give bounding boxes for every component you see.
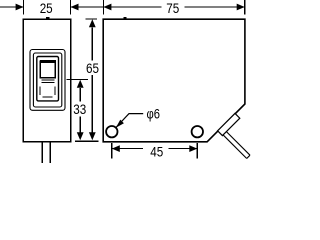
dimension 65: top tick (86, 18, 97, 20)
lens lower window right tick (54, 87, 56, 96)
dimensions 33/65: shared bottom tick (75, 140, 99, 142)
lens middle double line upper (42, 79, 55, 81)
right box (front view body with chamfered corner) (103, 19, 245, 142)
dimension 33: bottom arrowhead (down) (77, 132, 84, 140)
svg-text:φ6: φ6 (147, 107, 161, 122)
cable upper edge (226, 132, 250, 156)
lens bezel middle rounded rect (33, 53, 61, 107)
lens upper window thick top edge (40, 60, 56, 63)
dimension 75: right arrowhead (237, 4, 245, 11)
svg-text:75: 75 (166, 0, 179, 16)
dimension 25: left extension line (23, 0, 25, 15)
left cable right edge (49, 142, 51, 163)
cable end cap (247, 155, 250, 158)
lens bezel inner rounded rect (37, 57, 59, 101)
lens lower window bottom line (43, 96, 53, 98)
lens lower window left tick (39, 87, 41, 96)
phi6 leader arrowhead (116, 120, 124, 128)
dimension 25: right extension line (70, 0, 72, 15)
svg-text:25: 25 (40, 0, 53, 16)
phi6 leader line (116, 114, 143, 128)
dimension 65: lower stem (91, 75, 93, 132)
dimension 75: left extension line (102, 0, 104, 15)
svg-text:65: 65 (86, 60, 99, 76)
dimension 45: left extension line (111, 143, 113, 159)
lens upper window (40, 61, 55, 77)
dimension 33: lower stem (79, 117, 81, 133)
lens bezel outer rounded rect (30, 50, 65, 111)
dimension 65: top arrowhead (up) (89, 19, 96, 27)
dimension 75: right extension line (244, 0, 246, 15)
dimension 25: right arrow line (71, 6, 104, 8)
cable lower edge (223, 135, 247, 159)
svg-text:33: 33 (73, 101, 86, 117)
dimension 45: right extension line (196, 143, 198, 159)
left box (side view body) (23, 19, 70, 142)
dimension 45: left dim line segment (112, 148, 143, 150)
mounting hole right (192, 126, 203, 137)
right box top bump (123, 17, 126, 19)
dimension 75: left dim line segment (103, 6, 161, 8)
left box top bump (46, 17, 49, 19)
left cable left edge (41, 142, 43, 163)
dimension 75: left arrowhead (103, 4, 111, 11)
dimension 65: bottom arrowhead (down) (89, 132, 96, 140)
dimension 33: optical axis tick (66, 78, 88, 80)
dimension 33: top arrowhead (up) (77, 80, 84, 88)
dimension 65: upper stem (91, 27, 93, 60)
dimension 33: upper stem (79, 88, 81, 102)
svg-text:45: 45 (150, 144, 163, 160)
dimension 45: right arrowhead (189, 145, 197, 152)
lens middle double line lower (42, 82, 55, 84)
dimension 25: left arrowhead (16, 4, 24, 11)
dimension 45: left arrowhead (112, 145, 120, 152)
dimension 25: left arrow line (0, 6, 24, 8)
dimension 25: right arrowhead (71, 4, 79, 11)
cable gland collar on chamfer (218, 113, 240, 135)
dimension 45: right dim line segment (169, 148, 198, 150)
dimension 75: right dim line segment (185, 6, 245, 8)
mounting hole left (106, 126, 117, 137)
